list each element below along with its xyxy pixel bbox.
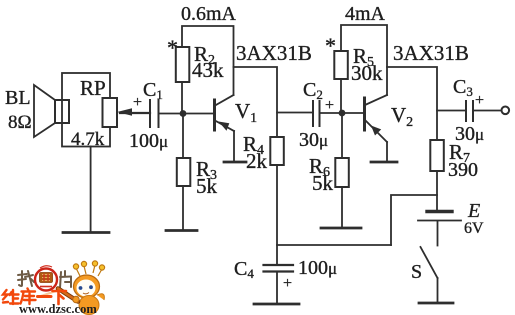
watermark mascot — [38, 261, 105, 315]
svg-text:100μ: 100μ — [129, 130, 168, 152]
label 3AX31B stage1 — [236, 41, 312, 65]
svg-text:30μ: 30μ — [299, 129, 328, 151]
wire R2 bottom to base node — [181, 82, 183, 114]
svg-text:+: + — [475, 92, 484, 109]
label 100u for C4 — [298, 257, 337, 279]
label * for R5 — [325, 33, 336, 58]
wire R3 to ground — [182, 186, 184, 230]
label R4 2k — [243, 132, 268, 173]
svg-text:4.7k: 4.7k — [71, 129, 105, 150]
label R3 5k — [196, 157, 218, 198]
label 30u for C2 — [299, 129, 328, 151]
label 0.6mA — [181, 3, 237, 25]
watermark character yi — [38, 295, 52, 298]
wire R6 to ground — [341, 187, 343, 228]
svg-text:5k: 5k — [196, 174, 218, 198]
wire C1 to base of V1 — [159, 113, 214, 115]
wire top feedback loop stage 1 — [182, 26, 234, 95]
svg-text:+: + — [133, 94, 142, 111]
svg-text:2k: 2k — [246, 149, 268, 173]
label 4.7k — [71, 129, 105, 150]
label RP — [80, 76, 106, 100]
label + for C4 — [283, 275, 292, 292]
wire R7 to battery — [436, 171, 438, 211]
resistor R7 — [430, 140, 444, 171]
wire base node 2 to R6 — [341, 113, 343, 158]
label C4 — [234, 258, 254, 281]
svg-text:S: S — [411, 261, 422, 283]
ground under C4 — [254, 303, 299, 306]
label C2 — [303, 79, 323, 102]
wire V1 collector branch to R4 — [234, 67, 278, 137]
watermark circle chip logo — [35, 266, 57, 291]
svg-text:C1: C1 — [143, 79, 163, 102]
wire V1 emitter to ground — [233, 131, 235, 162]
svg-text:+: + — [283, 275, 292, 292]
ground under V2 emitter — [371, 161, 397, 164]
svg-text:4mA: 4mA — [345, 3, 386, 25]
svg-text:8Ω: 8Ω — [8, 112, 32, 133]
wire collector 2 to C3 — [437, 110, 466, 112]
label V1 — [235, 99, 257, 126]
label + for C3 — [475, 92, 484, 109]
label R5 30k — [351, 44, 383, 85]
ground under V1 emitter — [224, 161, 246, 164]
transistor V1 emitter with arrow — [215, 121, 234, 132]
svg-text:V1: V1 — [235, 99, 257, 126]
transistor V2 base bar — [363, 98, 366, 130]
label 30u for C3 — [455, 123, 484, 145]
svg-text:100μ: 100μ — [298, 257, 337, 279]
capacitor C2 — [313, 101, 320, 126]
ground under R6 — [321, 227, 361, 230]
capacitor C4 — [264, 265, 294, 272]
ground under RP — [63, 231, 109, 234]
watermark logo bottom-left — [3, 261, 105, 315]
label BL — [5, 87, 31, 109]
svg-text:+: + — [325, 97, 334, 114]
wire C4 to ground — [276, 272, 278, 304]
svg-text:www.dzsc.com: www.dzsc.com — [19, 302, 97, 315]
svg-text:30k: 30k — [351, 61, 383, 85]
label + for C1 — [133, 94, 142, 111]
wire supply jog — [391, 195, 437, 245]
label * for R2 — [167, 35, 178, 60]
output terminal circle — [502, 107, 510, 115]
label 4mA — [345, 3, 386, 25]
svg-text:390: 390 — [448, 159, 478, 181]
wire RP wiper to C1 with arrow — [117, 108, 150, 116]
label 3AX31B stage2 — [393, 41, 469, 65]
label S — [411, 261, 422, 283]
supply rail wire — [277, 244, 391, 246]
wire switch to ground — [437, 278, 439, 303]
transistor V1 collector — [215, 95, 234, 106]
watermark character pian — [60, 271, 71, 288]
wire C2 to base of V2 — [320, 112, 364, 114]
label R6 5k — [309, 154, 334, 195]
wire C3 to output terminal — [473, 110, 502, 112]
svg-text:C2: C2 — [303, 79, 323, 102]
watermark url — [19, 302, 97, 315]
speaker BL driver box — [55, 100, 69, 123]
resistor R3 — [177, 158, 191, 186]
wire base node to R3 — [182, 114, 184, 158]
svg-text:6V: 6V — [464, 220, 484, 237]
svg-text:C4: C4 — [234, 258, 254, 281]
svg-text:3AX31B: 3AX31B — [393, 41, 469, 65]
label R2 43k — [192, 42, 224, 82]
resistor R4 — [270, 137, 284, 165]
svg-text:43k: 43k — [192, 58, 224, 82]
watermark character ku — [21, 289, 36, 305]
wire RP to ground — [90, 147, 92, 233]
label C1 — [143, 79, 163, 102]
switch S arm — [421, 247, 438, 278]
potentiometer RP element box — [103, 98, 118, 127]
wire top feedback loop stage 2 — [341, 25, 387, 95]
label 100u for C1 — [129, 130, 168, 152]
svg-text:RP: RP — [80, 76, 106, 100]
label 8ohm — [8, 112, 32, 133]
wire R4 to supply rail — [276, 165, 278, 265]
svg-text:*: * — [325, 33, 336, 58]
potentiometer RP loop — [62, 73, 110, 147]
wire V2 emitter to ground — [386, 142, 388, 162]
speaker BL cone — [34, 85, 55, 137]
battery E — [418, 212, 461, 246]
wire V2 collector branch to R7 — [387, 67, 437, 140]
label 6V — [464, 220, 484, 237]
transistor V1 base bar — [213, 100, 216, 130]
node base V2 — [339, 110, 346, 117]
svg-text:3AX31B: 3AX31B — [236, 41, 312, 65]
resistor R6 — [335, 158, 349, 187]
svg-text:*: * — [167, 35, 178, 60]
transistor V2 collector — [365, 95, 387, 105]
watermark character xia — [53, 291, 67, 304]
ground under switch — [419, 302, 453, 305]
label R7 390 — [448, 140, 478, 181]
node base V1 — [180, 110, 187, 117]
svg-text:5k: 5k — [312, 171, 334, 195]
resistor R2 — [176, 47, 190, 82]
capacitor C3 — [466, 101, 473, 121]
watermark character zhao — [18, 271, 34, 286]
label C3 — [453, 76, 473, 99]
watermark character wei — [3, 290, 19, 304]
svg-text:BL: BL — [5, 87, 31, 109]
transistor V2 emitter with arrow — [365, 120, 387, 142]
svg-text:V2: V2 — [391, 103, 413, 130]
svg-text:E: E — [467, 200, 480, 222]
ground under R3 — [166, 229, 197, 232]
svg-text:C3: C3 — [453, 76, 473, 99]
wire R5 bottom to base node 2 — [340, 79, 342, 113]
label + for C2 — [325, 97, 334, 114]
wire collector to C2 — [277, 112, 313, 114]
capacitor C1 — [150, 100, 159, 127]
svg-text:0.6mA: 0.6mA — [181, 3, 237, 25]
label V2 — [391, 103, 413, 130]
label E — [467, 200, 480, 222]
resistor R5 — [334, 51, 348, 79]
